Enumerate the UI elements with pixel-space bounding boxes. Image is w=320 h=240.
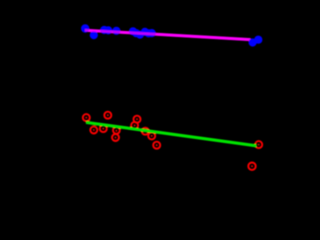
green fit line [86,122,257,145]
point R9 [142,128,149,135]
point B13 [254,36,262,44]
magenta fit line (under layer) [85,30,251,39]
point B10 [145,29,153,37]
point R1 [83,114,90,121]
point B9 [141,28,149,36]
point R8 [131,122,138,129]
point B1 [81,24,89,32]
blue scatter series [81,24,156,39]
point R12 [255,141,262,148]
point B3 [100,26,108,34]
point B6 [129,27,137,35]
point B7 [132,29,140,37]
point B11 [148,29,156,37]
point R2 [90,127,97,134]
point B2 [90,31,98,39]
point R3 [104,112,111,119]
point B8 [136,30,144,38]
red open-circle series [83,112,262,170]
point R13 [248,163,255,170]
point R11 [153,142,160,149]
point B4 [104,26,112,34]
point R5 [113,127,120,134]
point B12 [249,38,257,46]
magenta fit line [85,30,251,39]
point R10 [148,132,155,139]
point R7 [134,116,141,123]
point R4 [100,125,107,132]
red center dots [85,114,259,167]
point R6 [112,134,119,141]
point B5 [112,27,120,35]
